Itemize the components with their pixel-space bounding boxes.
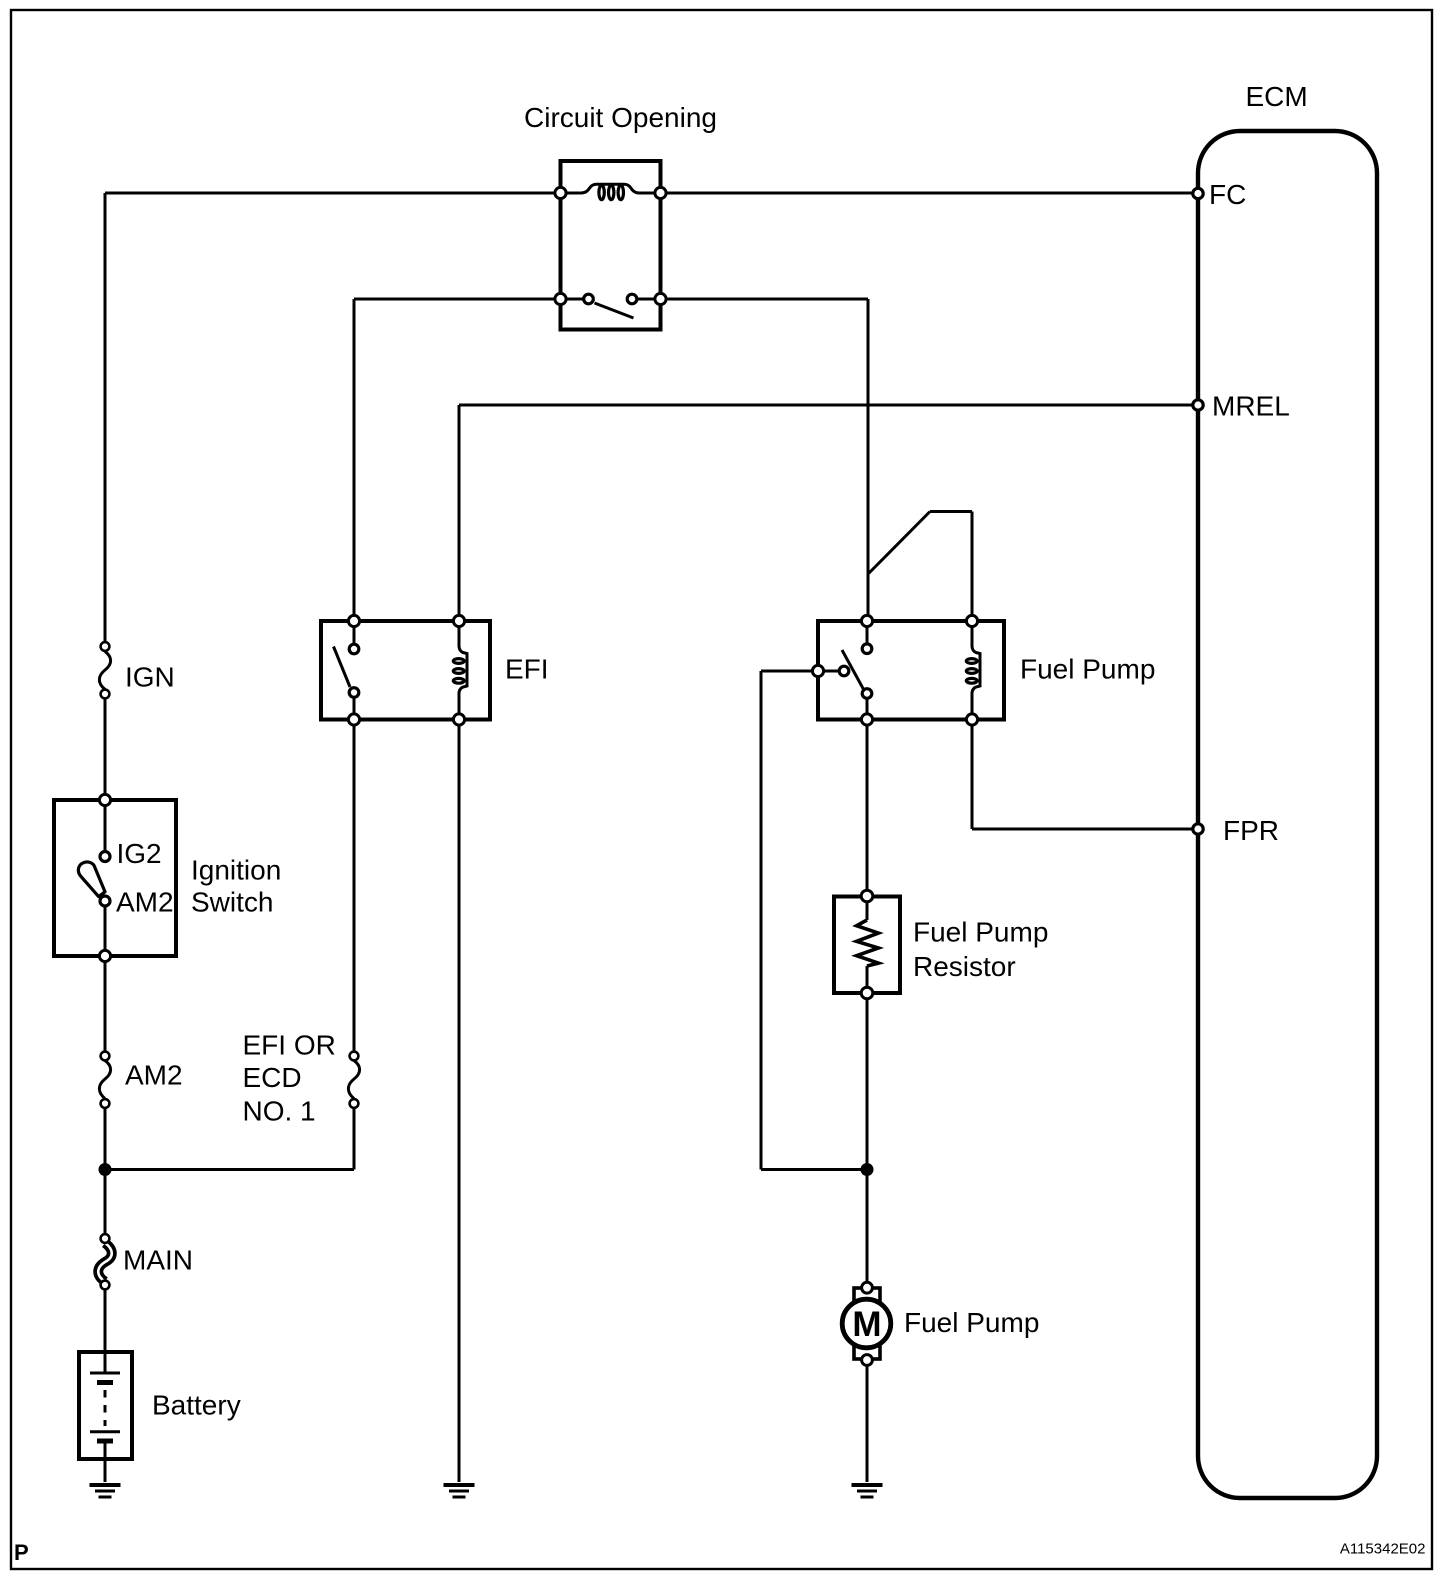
relay: Fuel Pump [812,615,1004,725]
svg-text:EFI OR: EFI OR [243,1030,336,1061]
label: Fuel Pump Resistor [913,917,1048,983]
svg-text:AM2: AM2 [116,887,174,918]
terminal: ECM MREL [1193,400,1203,410]
svg-text:Fuel Pump: Fuel Pump [1020,654,1155,685]
svg-text:M: M [852,1305,881,1344]
junction: battery positive node [99,1163,112,1176]
fuse IGN [99,642,110,698]
relay: EFI [321,615,490,725]
wire: MAIN fusible link to battery [104,1290,107,1373]
ECM block [1198,131,1377,1498]
relay: Circuit Opening [555,161,666,330]
svg-text:NO. 1: NO. 1 [243,1096,316,1127]
svg-text:Switch: Switch [191,887,273,918]
wire: fuel pump relay to resistor [866,720,869,898]
battery [79,1352,132,1459]
fuse AM2 [99,1052,110,1108]
svg-text:ECD: ECD [243,1062,302,1093]
svg-text:MREL: MREL [1212,391,1290,422]
wire: FPR net from fuel pump relay coil to ECM [972,720,1198,830]
label: Ignition Switch [191,855,281,918]
svg-text:Fuel Pump: Fuel Pump [913,917,1048,948]
wire: FC net from relay to ECM FC [661,192,1199,195]
wire: fuel pump relay contact bypass branch [761,671,867,1170]
wire: EFI relay coil to ground [458,720,461,1483]
svg-text:Battery: Battery [152,1390,241,1421]
svg-text:MAIN: MAIN [123,1245,193,1276]
wire: EFI relay to EFI OR ECD NO.1 fuse [353,720,356,1052]
terminal: ECM FC [1193,188,1203,198]
svg-text:Ignition: Ignition [191,855,281,886]
resistor: Fuel Pump Resistor [834,890,900,999]
svg-text:P: P [14,1540,29,1565]
wire: diagonal tap to fuel pump relay coil [868,512,972,622]
junction: fuel pump feed node [861,1163,874,1176]
svg-text:IGN: IGN [125,662,175,693]
ground: EFI relay coil [444,1485,475,1497]
wire: ignition switch to IGN fuse [104,699,107,800]
svg-text:EFI: EFI [505,654,549,685]
wire: battery node to EFI OR ECD NO.1 fuse [105,1108,354,1170]
svg-text:ECM: ECM [1246,81,1308,112]
svg-text:AM2: AM2 [125,1060,183,1091]
wire: battery negative to ground [104,1441,107,1482]
terminal: ECM FPR [1193,824,1203,834]
ignition switch [54,794,176,961]
wire: fuel pump motor to ground [866,1365,869,1482]
motor: Fuel Pump [842,1282,891,1365]
svg-text:FC: FC [1209,179,1246,210]
ground: fuel pump motor [852,1485,883,1497]
svg-text:IG2: IG2 [117,838,162,869]
wire: ignition switch to AM2 fuse [104,956,107,1052]
wire: battery positive rail, FC net top-left corner [105,193,561,642]
svg-text:A115342E02: A115342E02 [1340,1541,1426,1558]
wire: resistor to fuel pump motor [866,993,869,1282]
svg-text:Circuit Opening: Circuit Opening [524,102,717,133]
ground: battery [90,1485,121,1497]
wire: circuit opening relay contact to EFI relay contact [354,299,561,621]
label: EFI OR ECD NO. 1 [243,1030,336,1127]
fuse EFI OR ECD NO.1 [348,1052,359,1108]
wire: AM2 fuse to battery node [104,1108,107,1234]
wire: circuit opening relay contact to fuel pump relay [661,299,869,621]
wire: MREL net from ECM to EFI relay coil [459,405,1198,621]
fusible link MAIN [98,1234,112,1289]
svg-text:FPR: FPR [1223,815,1279,846]
svg-text:Resistor: Resistor [913,951,1016,982]
svg-text:Fuel Pump: Fuel Pump [904,1307,1039,1338]
